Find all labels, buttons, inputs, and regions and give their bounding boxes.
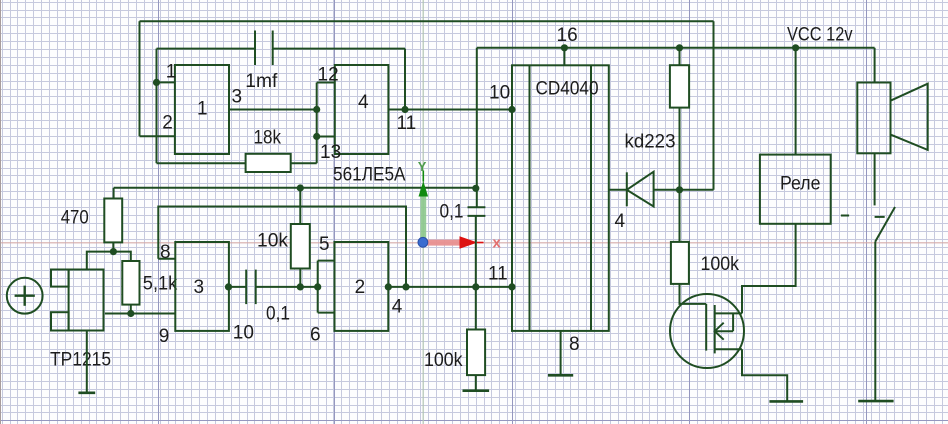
wire [388,109,512,111]
wire [874,48,876,83]
svg-text:8: 8 [569,334,580,355]
axis X label [493,235,502,252]
pin label 5 [319,234,330,255]
ground [548,331,573,375]
wire [299,269,301,287]
label C3 value [440,202,464,223]
wire [388,286,512,288]
svg-text:16: 16 [557,25,578,46]
wire [157,48,256,50]
svg-text:561ЛЕ5А: 561ЛЕ5А [333,165,406,186]
label gate3 [194,277,205,298]
Y axis line [422,0,424,424]
node junction [297,184,304,191]
svg-text:10: 10 [233,322,254,343]
label R4 value [257,230,288,251]
source G1 plus [7,278,43,314]
svg-text:0,1: 0,1 [440,202,464,223]
svg-text:12: 12 [318,65,339,86]
node junction [127,310,134,317]
wire [229,286,246,288]
svg-text:1mf: 1mf [245,71,278,92]
pin label 4 [615,211,626,232]
svg-text:18k: 18k [254,128,282,149]
svg-text:5: 5 [319,234,330,255]
node junction [225,283,232,290]
gate U1.1 [175,65,229,154]
resistor R1 470 [104,199,122,243]
svg-text:Y: Y [418,159,427,174]
wire [157,162,246,164]
ground [78,331,95,393]
wire [112,242,114,251]
speaker BA1 [857,83,927,154]
wire [273,48,405,50]
transistor Q1 mosfet [670,294,744,368]
pin label 4 [392,297,403,318]
label BQ1 name [50,350,111,371]
node junction [313,106,320,113]
pin label 11 [488,264,508,285]
capacitor C2 0,1 [246,270,256,305]
resistor R2 18k [246,154,291,172]
wire [563,48,565,66]
pin label 10 [233,322,254,343]
svg-text:3: 3 [232,87,243,108]
axis Y arrow [419,171,429,243]
svg-text:CD4040: CD4040 [536,79,599,100]
label C2 value [266,304,290,325]
wire [316,83,318,164]
svg-text:3: 3 [194,277,205,298]
svg-text:5,1k: 5,1k [143,274,178,295]
node junction [110,248,117,255]
node junction [792,44,799,51]
label R2 value [254,128,282,149]
pin label 10 [489,83,510,104]
wire [654,189,714,191]
svg-text:1: 1 [166,62,177,83]
wire [318,312,335,314]
axis origin dot [418,237,428,247]
svg-text:4: 4 [615,211,626,232]
svg-text:0,1: 0,1 [266,304,290,325]
label gate4 [358,92,369,113]
pin label 12 [318,65,339,86]
svg-text:8: 8 [160,242,171,263]
capacitor C3 0,1 [468,207,486,216]
svg-text:6: 6 [310,325,321,346]
wire [130,305,132,314]
resistor R3 5,1k [122,261,139,305]
svg-text:ТР1215: ТР1215 [50,350,111,371]
resistor R5 100k [467,330,485,376]
gate U1.2 [335,242,389,331]
pin label 3 [232,87,243,108]
wire [140,135,175,137]
pin label 9 [159,326,170,347]
wire [157,81,175,83]
svg-text:VCC 12v: VCC 12v [787,25,853,46]
wire [256,286,318,288]
wire [113,188,115,199]
node junction [153,79,160,86]
pin label 8 [160,242,171,263]
ground [463,375,490,391]
svg-text:2: 2 [355,277,366,298]
node junction [402,283,409,290]
wire [299,188,301,224]
ground [769,400,803,403]
IC U2 CD4040 [512,65,609,331]
wire [318,260,335,262]
wire [140,20,714,22]
svg-text:100k: 100k [701,254,740,275]
node junction [314,283,321,290]
wire [291,162,317,164]
svg-text:100k: 100k [424,350,463,371]
svg-text:kd223: kd223 [625,132,676,153]
ground [858,400,893,403]
wire [229,109,317,111]
pin label 16 [557,25,578,46]
wire [87,252,131,270]
svg-text:x: x [493,235,502,252]
wire [679,48,681,65]
wire [795,48,797,155]
svg-text:10: 10 [489,83,510,104]
svg-text:13: 13 [320,142,341,163]
node junction [385,283,392,290]
node junction [472,185,479,192]
svg-text:10k: 10k [257,230,288,251]
node junction [561,44,568,51]
wire [476,48,478,207]
label gate1 [197,99,208,120]
label minus [841,215,849,217]
wire feedback [158,207,406,287]
wire [158,258,175,260]
svg-text:11: 11 [397,113,417,134]
pin label 1 [166,62,177,83]
switch SA1 [875,207,895,242]
label IC1 name [333,165,406,186]
left screen edge [0,0,2,424]
svg-text:4: 4 [392,297,403,318]
capacitor C1 1mf [255,31,273,66]
svg-text:4: 4 [358,92,369,113]
wire [609,189,627,191]
svg-text:1: 1 [197,99,208,120]
pin label 11 [397,113,417,134]
relay K1 [760,155,831,224]
pin label 6 [310,325,321,346]
wire [713,21,715,190]
svg-text:Реле: Реле [780,174,821,195]
label R7 value [701,254,740,275]
wire [874,153,876,205]
pin label 13 [320,142,341,163]
pin label 2 [162,113,173,134]
wire [114,187,476,189]
wire VCC [477,47,875,49]
wire [680,284,707,304]
wire relay-drain [742,224,796,314]
wire [679,190,681,242]
node junction [508,283,515,290]
label R3 value [143,274,178,295]
node junction [676,44,683,51]
axis Y label [418,159,427,174]
resistor R7 100k [671,242,689,284]
pin label 8 [569,334,580,355]
label R5 value [424,350,463,371]
wire [874,242,876,402]
label K1 name [780,174,821,195]
label gate2 [355,277,366,298]
resistor R6 [670,65,689,107]
node junction [508,106,515,113]
wire [317,261,319,313]
wire [317,136,335,138]
svg-text:9: 9 [159,326,170,347]
node junction [297,283,304,290]
node junction [313,133,320,140]
wire [139,21,141,136]
gate U1.3 [175,242,229,331]
node junction [472,283,479,290]
label VD1 name [625,132,676,153]
wire [317,82,335,84]
node junction [401,106,408,113]
svg-text:470: 470 [61,207,89,228]
label U2 name [536,79,599,100]
label C1 value [245,71,278,92]
X axis line [0,242,948,244]
wire [475,216,477,330]
svg-text:2: 2 [162,113,173,134]
wire [404,49,406,110]
label VCC 12v [787,25,853,46]
label R1 value [61,207,89,228]
wire [679,108,681,190]
axis X arrow [427,236,484,249]
node junction [676,186,683,193]
resistor R4 10k [291,224,310,269]
diode VD1 kd223 [627,172,654,207]
svg-text:11: 11 [488,264,508,285]
wire source [742,349,787,401]
piezo BQ1 TP1215 [51,270,104,331]
wire [105,313,175,315]
wire [156,49,158,164]
gate U1.4 [335,65,389,154]
